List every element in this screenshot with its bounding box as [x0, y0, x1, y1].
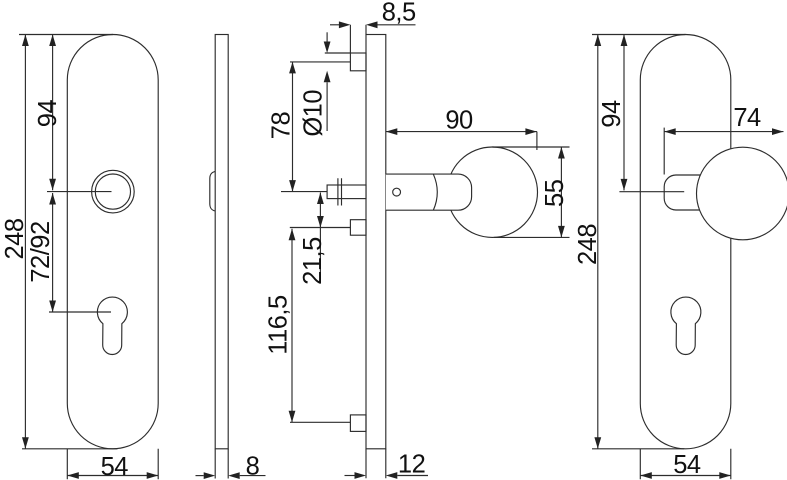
svg-text:21,5: 21,5	[299, 237, 327, 285]
svg-text:94: 94	[598, 100, 626, 128]
screw boss 1	[350, 53, 366, 71]
right knob ball	[697, 147, 787, 240]
left keyhole (euro profile)	[97, 297, 127, 354]
right knob neck	[664, 175, 700, 210]
svg-text:72/92: 72/92	[27, 221, 55, 282]
left knob hole outer circle	[92, 170, 135, 213]
dimension 248 left line	[24, 35, 26, 449]
dimension 12 ext lines	[366, 449, 386, 479]
dim 54 right ext lines	[640, 449, 731, 479]
left plate outline	[67, 35, 158, 449]
side profile outline	[215, 35, 228, 449]
svg-text:54: 54	[101, 453, 129, 480]
svg-text:74: 74	[733, 104, 761, 132]
dim ext line top left	[19, 34, 113, 36]
grub screw hole	[393, 188, 401, 196]
screw boss 2	[350, 220, 366, 236]
neck transition arc	[433, 174, 437, 210]
leader to knob hole center	[47, 191, 112, 193]
svg-text:248: 248	[1, 218, 29, 259]
dimension 12 arrows	[345, 475, 355, 477]
dimension 78 line	[292, 62, 294, 192]
boss1 top ext line	[325, 52, 351, 54]
dim ext line bottom right	[592, 448, 684, 450]
dimension 55 line	[560, 147, 562, 237]
svg-text:12: 12	[398, 450, 425, 478]
spindle collar	[338, 178, 342, 205]
right keyhole (euro profile)	[671, 297, 701, 354]
boss2 center leader	[290, 227, 351, 229]
knob ball (side view)	[447, 147, 537, 237]
svg-text:8,5: 8,5	[382, 0, 416, 27]
dimension 8 arrows	[196, 475, 204, 477]
dimension 54 right line	[640, 475, 731, 477]
ext line ball right edge	[536, 132, 538, 150]
dimension 90 line	[386, 131, 537, 133]
dimension 8,5 top	[330, 24, 339, 26]
side profile boss bump	[210, 171, 215, 211]
boss3 center leader	[290, 421, 350, 423]
dimension 72/92 left line	[52, 193, 54, 312]
leader to right knob center	[619, 191, 684, 193]
svg-text:94: 94	[34, 100, 62, 128]
spindle	[327, 185, 366, 199]
screw boss 3	[350, 415, 366, 432]
svg-text:55: 55	[541, 179, 569, 207]
left knob hole inner circle	[95, 174, 130, 209]
svg-text:248: 248	[574, 224, 602, 265]
svg-text:Ø10: Ø10	[300, 90, 328, 137]
dim 54 left ext lines	[67, 449, 158, 480]
ext lines for 8,5	[350, 25, 366, 53]
knob neck (side view)	[386, 174, 472, 210]
dim 8 ext lines	[215, 449, 228, 479]
dimension 74 line	[664, 131, 783, 133]
dim ext line top right	[592, 34, 686, 36]
dimension Ø10 arrows	[326, 32, 328, 41]
svg-text:78: 78	[268, 112, 296, 140]
svg-text:54: 54	[673, 451, 701, 479]
leader to keyhole center	[49, 311, 111, 313]
dimension 94 right line	[623, 35, 625, 191]
ext lines for 55	[492, 147, 569, 237]
dimension 54 left line	[67, 475, 158, 477]
dimension 94 left line	[52, 35, 54, 191]
spindle center leader	[281, 191, 327, 193]
right plate outline	[640, 35, 731, 449]
svg-text:116,5: 116,5	[265, 295, 293, 355]
svg-text:90: 90	[445, 107, 473, 135]
dimension 116,5 line	[291, 229, 293, 422]
svg-text:8: 8	[246, 453, 260, 480]
middle plate outline	[366, 35, 386, 449]
dimension 248 right line	[597, 35, 599, 449]
boss1 center leader	[290, 61, 350, 63]
dim ext line bottom left	[22, 448, 118, 450]
dimension 21,5 line	[319, 193, 321, 281]
ext line 74 left	[663, 128, 665, 175]
